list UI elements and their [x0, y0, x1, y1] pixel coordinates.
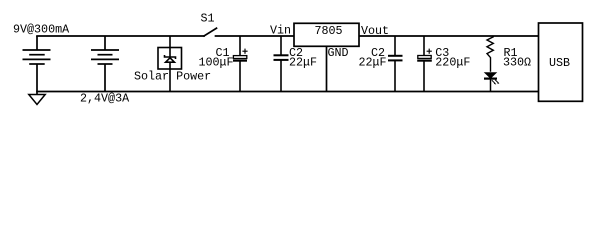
- capacitor C1 100uF polarized: [233, 36, 248, 92]
- LED D1 emission arrow 1: [492, 80, 496, 84]
- wire B1 negative terminal to ground node: [36, 64, 38, 95]
- battery B1 plate long 2: [23, 58, 51, 60]
- wire V+ rail: switch S1 right contact to 7805 Vin pin: [216, 35, 295, 37]
- wire C1 positive pin to V+ rail: [239, 36, 241, 56]
- wire 7805 GND pin to bottom rail: [326, 46, 328, 91]
- svg-text:2,4V@3A: 2,4V@3A: [80, 91, 130, 105]
- svg-text:Solar Power: Solar Power: [134, 70, 211, 84]
- wire GND bottom rail: ground node to USB connector: [37, 91, 539, 93]
- capacitor C2 bottom plate: [274, 59, 289, 61]
- plus sign C3 polarity: [427, 50, 432, 52]
- wire B2 positive terminal to V+ rail: [104, 36, 106, 50]
- wire C2 bottom pin to bottom rail: [280, 60, 282, 91]
- capacitor C2 top plate: [388, 55, 403, 57]
- wire B2 negative terminal to bottom rail: [104, 64, 106, 92]
- capacitor C1 negative plate: [233, 59, 247, 61]
- svg-text:220μF: 220μF: [435, 56, 470, 70]
- battery B1 plate short 2: [29, 63, 45, 65]
- wire Vout rail: 7805 Vout pin to USB connector: [359, 35, 539, 37]
- svg-text:22μF: 22μF: [289, 56, 317, 70]
- battery B1 plate short 1: [29, 54, 45, 56]
- battery B2 plate long 1: [91, 49, 119, 51]
- svg-text:USB: USB: [549, 56, 570, 70]
- solar cell diode anode lead: [169, 48, 171, 58]
- wire C2 top pin to Vout rail: [394, 36, 396, 56]
- LED D1: [484, 73, 499, 92]
- battery B2 2,4V@3A: [91, 36, 119, 92]
- solar panel module (Solar Power): [158, 36, 182, 92]
- svg-text:100μF: 100μF: [199, 56, 234, 70]
- solar cell diode lead to box bottom: [169, 62, 171, 69]
- svg-text:9V@300mA: 9V@300mA: [13, 22, 70, 36]
- wire C2 bottom pin to bottom rail: [394, 61, 396, 92]
- solar cell diode triangle: [166, 58, 175, 62]
- battery B1 9V@300mA: [23, 36, 51, 95]
- wire solar panel top pin to V+ rail: [169, 36, 171, 48]
- battery B2 plate long 2: [91, 58, 119, 60]
- wire V+ rail: battery B1 to switch S1 left contact: [37, 35, 204, 37]
- wire solar panel bottom pin to bottom rail: [169, 69, 171, 92]
- capacitor C2 top plate: [274, 54, 289, 56]
- wire C3 positive pin to Vout rail: [423, 36, 425, 56]
- capacitor C3 negative plate: [417, 59, 432, 61]
- wire B1 positive terminal to V+ rail: [36, 36, 38, 50]
- svg-text:S1: S1: [201, 12, 215, 26]
- wire C1 negative pin to bottom rail: [239, 62, 241, 92]
- svg-text:330Ω: 330Ω: [503, 56, 531, 70]
- svg-text:22μF: 22μF: [359, 56, 387, 70]
- battery B1 plate long 1: [23, 49, 51, 51]
- battery B2 plate short 2: [98, 63, 113, 65]
- capacitor C2 bottom plate: [388, 59, 403, 61]
- resistor R1 330 ohm (zigzag): [487, 36, 493, 72]
- capacitor C3 positive plate (hollow): [418, 56, 431, 59]
- switch S1 blade: [204, 28, 217, 36]
- svg-text:Vin: Vin: [270, 24, 291, 38]
- LED D1 anode triangle: [485, 73, 496, 78]
- wire C2 top pin to V+ rail: [280, 36, 282, 55]
- ground symbol: [29, 95, 45, 105]
- plus sign C1 polarity: [242, 50, 247, 52]
- wire LED cathode to bottom rail: [490, 80, 492, 92]
- svg-text:GND: GND: [328, 46, 349, 60]
- svg-text:Vout: Vout: [361, 24, 389, 38]
- wire C3 negative pin to bottom rail: [423, 62, 425, 92]
- capacitor C2 22uF (left of 7805): [274, 36, 289, 92]
- battery B2 plate short 1: [98, 54, 113, 56]
- regulator U1 7805 body: [294, 23, 359, 46]
- capacitor C1 positive plate (hollow): [233, 56, 246, 59]
- svg-text:7805: 7805: [315, 24, 343, 38]
- LED D1 cathode bar: [484, 77, 497, 79]
- LED D1 emission arrow 2: [495, 80, 499, 84]
- capacitor C2 22uF (right of 7805): [388, 36, 403, 92]
- solar cell diode cathode bar (zener style): [165, 55, 176, 59]
- capacitor C3 220uF polarized: [417, 36, 432, 92]
- connector USB body: [539, 23, 583, 101]
- solar panel body box: [158, 48, 182, 70]
